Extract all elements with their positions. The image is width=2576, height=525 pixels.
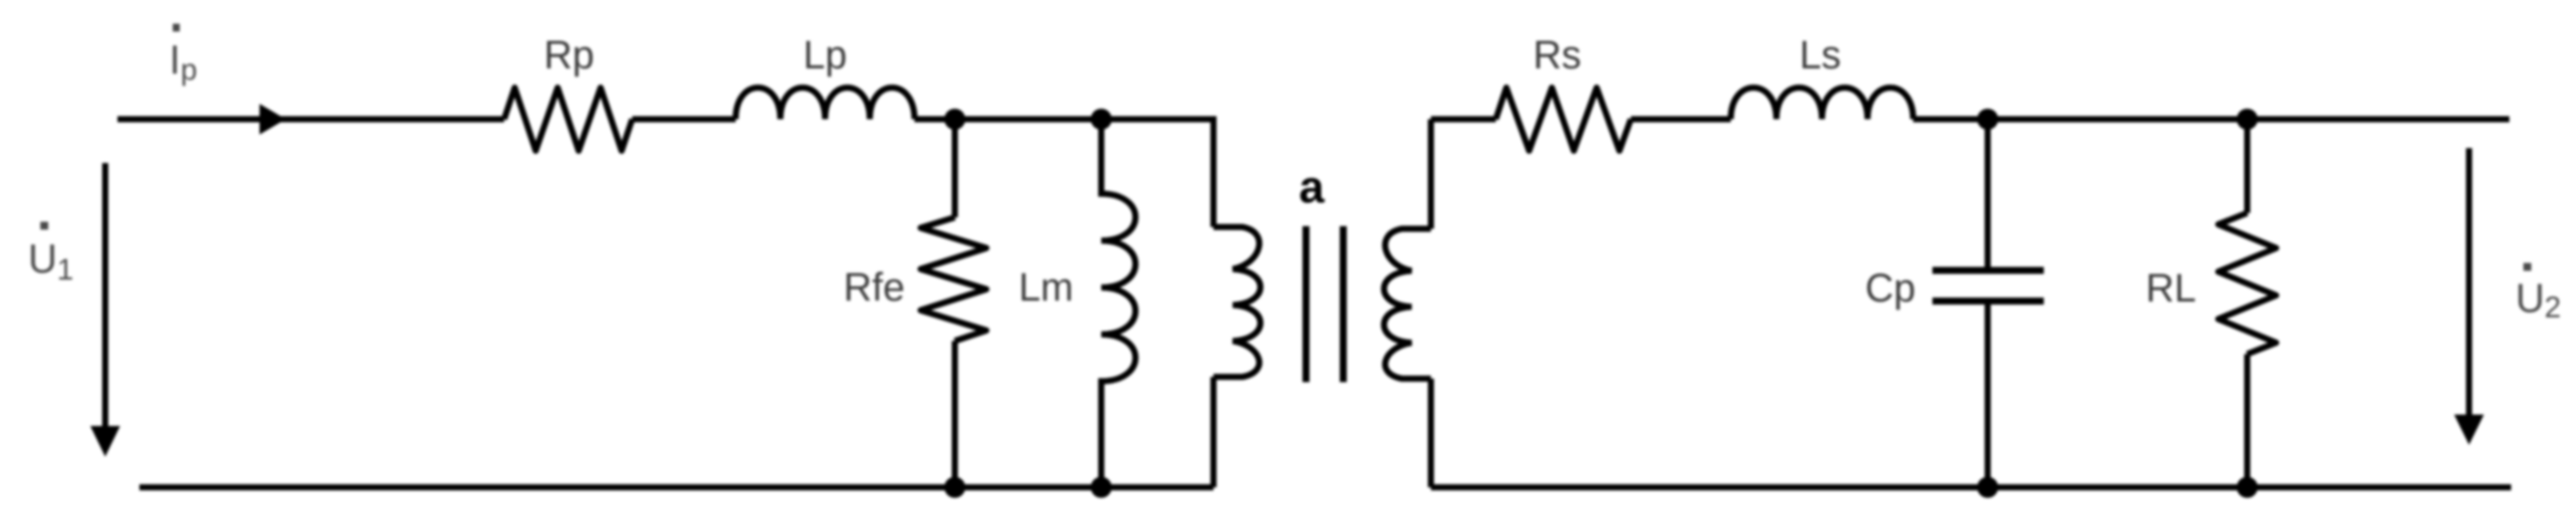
svg-text:2: 2: [2544, 291, 2561, 324]
wire top-left input segment: [117, 117, 504, 123]
capacitor Cp wire lower: [1985, 304, 1991, 487]
wire node D to right edge top: [2247, 117, 2509, 123]
svg-text:I: I: [169, 37, 181, 82]
transformer core line 2: [1340, 226, 1347, 382]
resistor Rs: [1496, 88, 1631, 151]
svg-text:RL: RL: [2145, 266, 2196, 310]
svg-text:Rfe: Rfe: [843, 265, 905, 309]
node C junction dot: [1977, 109, 1998, 130]
wire node C to node D: [1988, 117, 2247, 123]
wire Lp to node A: [914, 117, 955, 123]
wire node B to transformer primary top: [1101, 119, 1213, 227]
label U1 with dot: [28, 222, 74, 287]
resistor Rfe (with connecting wires): [921, 119, 986, 487]
wire node A to node B: [955, 117, 1101, 123]
transformer core line 1: [1303, 226, 1310, 382]
label Ip with dot: [169, 24, 197, 87]
node D junction dot: [2237, 109, 2258, 130]
inductor Lm (with connecting wires): [1101, 119, 1135, 487]
svg-text:U: U: [28, 236, 57, 281]
arrow U1 head: [90, 426, 120, 457]
capacitor Cp top plate: [1932, 267, 2044, 274]
svg-text:Ls: Ls: [1799, 32, 1841, 77]
svg-text:U: U: [2516, 275, 2544, 321]
svg-text:Lm: Lm: [1019, 265, 1074, 309]
transformer secondary winding: [1384, 119, 1432, 487]
capacitor Cp bottom plate: [1932, 298, 2044, 305]
svg-text:p: p: [181, 53, 197, 87]
svg-text:Rs: Rs: [1534, 32, 1582, 77]
label U2 with dot: [2516, 263, 2561, 324]
svg-text:1: 1: [57, 253, 74, 287]
node H bottom junction dot under RL: [2237, 477, 2258, 498]
svg-text:Cp: Cp: [1865, 266, 1916, 310]
wire secondary top to Rs: [1431, 117, 1496, 123]
wire bottom-left return: [139, 485, 1213, 491]
node A junction dot: [944, 109, 965, 130]
resistor RL (with connecting wires): [2218, 119, 2276, 487]
node B junction dot: [1091, 109, 1112, 130]
svg-text:a: a: [1299, 162, 1326, 213]
arrow U1 voltage (line): [103, 163, 109, 428]
wire Rs to Ls: [1631, 117, 1731, 123]
resistor Rp: [504, 88, 632, 151]
arrow U2 voltage (line): [2466, 148, 2473, 416]
inductor Lp: [736, 88, 914, 119]
capacitor Cp wire upper: [1985, 119, 1991, 267]
arrow U2 head: [2454, 415, 2484, 445]
svg-text:Lp: Lp: [803, 32, 847, 77]
node G bottom junction dot under Cp: [1977, 477, 1998, 498]
node F bottom junction dot under Lm: [1091, 477, 1112, 498]
node E bottom junction dot under Rfe: [944, 477, 965, 498]
transformer primary winding: [1213, 227, 1261, 487]
wire Ls to node C: [1913, 117, 1988, 123]
inductor Ls: [1731, 88, 1913, 119]
wire between Rp and Lp: [632, 117, 736, 123]
arrowhead Ip current direction: [260, 104, 286, 135]
svg-text:Rp: Rp: [544, 32, 594, 77]
wire bottom-right return: [1431, 485, 2511, 491]
